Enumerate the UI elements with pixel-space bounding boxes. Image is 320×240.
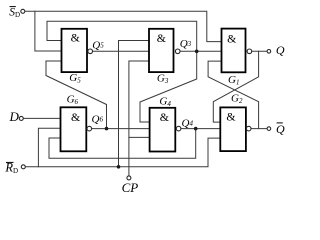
svg-text:&: &: [227, 31, 236, 45]
svg-text:&: &: [160, 110, 169, 124]
svg-text:Q: Q: [276, 122, 285, 136]
svg-text:&: &: [71, 110, 80, 124]
svg-text:D: D: [9, 109, 20, 124]
svg-text:&: &: [71, 31, 80, 45]
svg-text:CP: CP: [122, 180, 139, 195]
svg-text:&: &: [157, 31, 166, 45]
svg-text:Q: Q: [276, 43, 285, 57]
svg-text:&: &: [226, 109, 235, 123]
